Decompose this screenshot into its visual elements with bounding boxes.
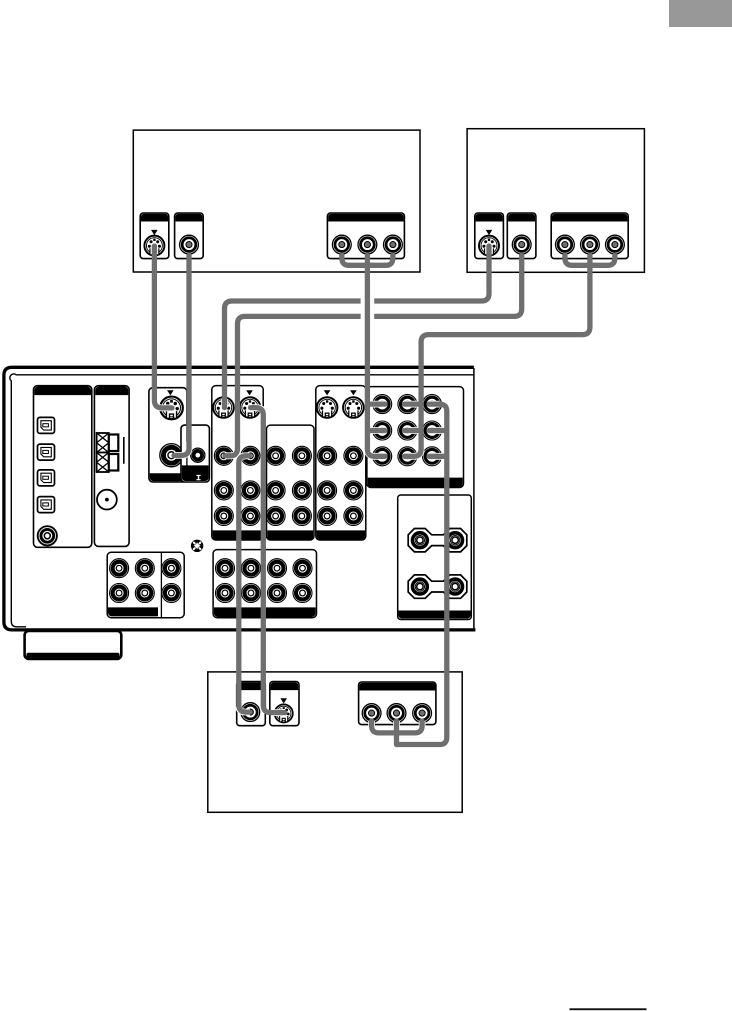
cable: component col3 bundle to TV group [372,404,447,744]
audio left jack r2c1 [110,584,129,603]
aux band label I [196,475,200,480]
video1 s-video jack 2 [240,397,261,418]
cable: TL s-video to monitor s-video [154,246,172,408]
video3 rca jack r3c1 [318,507,337,526]
video1 rca jack r2c1 [214,481,233,500]
audio right jack r2c4 [293,584,312,603]
cable: TR video to video1 rca r1c1 [225,255,522,456]
receiver panel lip line [10,374,474,627]
TL 3-jack group housing [327,213,404,259]
aux input block [181,425,209,482]
TR group jack 3 [606,235,625,254]
TV video jack [241,703,260,722]
video2 block [267,425,315,540]
cable: TR s-video to video1 s-video 1 [225,246,490,408]
audio left divider [160,552,162,618]
TR 3-jack group housing [551,213,628,259]
audio right jack r1c3 [268,559,287,578]
optical connector 1 [38,417,55,433]
TL s-video housing [140,213,169,259]
screw [191,540,203,552]
video3 s-video jack 1 [317,397,338,418]
TL video jack [180,235,199,254]
antenna section strip [94,386,129,547]
monitor s-video arrow [167,390,174,395]
AM antenna clip terminal [97,433,119,472]
audio right jack r2c1 [216,584,235,603]
audio right jack r2c2 [242,584,261,603]
TV 3-jack group housing [359,682,436,725]
optical connector 4 [38,497,55,513]
antenna divider line [123,437,125,464]
TR video jack [512,235,531,254]
TV video housing [237,682,266,726]
video3 rca jack r2c1 [318,481,337,500]
video3 rca jack r1c1 [318,446,337,465]
digital section strip [34,386,92,548]
component jack r1c1 [373,395,392,414]
receiver right edge [473,368,475,629]
video3 arrow 2 [350,390,357,395]
aux jack [191,448,205,462]
component jack r3c1 [373,447,392,466]
video3 s-video jack 2 [343,397,364,418]
component jack r3c3 [423,447,442,466]
monitor block band [150,473,186,481]
audio right jack r1c1 [216,559,235,578]
TR group jack 2 [581,235,600,254]
audio left jack r1c1 [110,559,129,578]
TV s-video housing [270,682,299,726]
FM antenna jack [97,490,117,510]
component video band [368,478,463,488]
audio left jack r2c2 [135,584,154,603]
video1 rca jack r1c1 [214,446,233,465]
video2 rca jack r3c2 [292,507,311,526]
component jack r2c1 [373,421,392,440]
cable: TL group bundle to component col1 [342,255,393,456]
TR group jack 1 [556,235,575,254]
component jack r2c3 [423,421,442,440]
audio right jack r2c3 [268,584,287,603]
TL s-video jack [144,236,164,256]
video3 band [317,530,365,540]
cable: s-video monitor out to TV [251,408,286,713]
audio left band [108,607,158,616]
TR s-video arrow [486,230,493,235]
speaker block band [399,611,471,619]
video1 rca jack r2c2 [241,481,260,500]
audio right jack r1c4 [293,559,312,578]
TR s-video jack [479,236,499,256]
speaker terminal pair 1 [408,529,467,552]
audio block left [107,552,184,618]
audio block right [213,550,316,618]
video1 rca jack r1c2 [241,446,260,465]
coaxial digital jack [38,526,57,545]
video2 rca jack r2c1 [266,481,285,500]
receiver foot [25,631,122,659]
audio left jack r1c3 [162,559,181,578]
TV group jack 2 [387,704,406,723]
monitor s-video jack [160,397,183,420]
video2 rca jack r1c1 [266,446,285,465]
aux block band [182,465,209,481]
TL s-video arrow [151,230,158,235]
video2 rca jack r3c1 [266,507,285,526]
audio right band [214,607,316,617]
video1 s-video arrow [246,390,253,395]
component video block [367,387,464,488]
audio left jack r2c3 [162,584,181,603]
cable: TL video to monitor video [174,255,189,455]
monitor block [149,388,187,482]
audio right jack r1c2 [242,559,261,578]
speaker block [398,495,472,620]
TV monitor box [208,672,462,812]
monitor video jack [160,444,183,467]
TL group jack 2 [358,235,377,254]
TV s-video arrow [280,698,287,703]
video2 rca jack r1c2 [292,446,311,465]
speaker terminal pair 2 [408,575,467,598]
monitor block right edge [186,425,188,473]
video3 rca jack r1c2 [344,446,363,465]
component jack r1c3 [423,395,442,414]
receiver chassis outline [4,367,476,630]
video1 block [212,386,263,540]
TR s-video housing [475,213,504,259]
component jack r1c2 [398,395,417,414]
video2 rca jack r2c2 [292,481,311,500]
video3 block [316,386,366,540]
video1 rca jack r3c1 [214,507,233,526]
video3 rca jack r2c2 [344,481,363,500]
cable: TR group bundle to component col2 [405,255,615,456]
TL group jack 3 [384,235,403,254]
component jack r2c2 [398,421,417,440]
top-left component box [133,130,420,272]
top-right component box [467,129,644,273]
TV group jack 1 [362,704,381,723]
TV group jack 3 [413,704,432,723]
audio left jack r1c2 [135,559,154,578]
optical connector 2 [38,444,55,460]
TL group jack 1 [332,235,351,254]
video1 rca jack r3c2 [241,507,260,526]
component jack r3c2 [398,447,417,466]
grey page corner tab [669,0,732,27]
TR video housing [507,213,536,259]
TV s-video jack [275,704,293,722]
video1 s-video jack 1 [213,397,234,418]
cable: video monitor out to TV [239,456,250,712]
TL video housing [175,213,204,259]
video3 rca jack r3c2 [344,507,363,526]
optical connector 3 [38,470,55,486]
video2 band [267,530,313,540]
video1 band [213,530,263,540]
video3 arrow 1 [324,390,331,395]
footer rule [570,1008,647,1010]
